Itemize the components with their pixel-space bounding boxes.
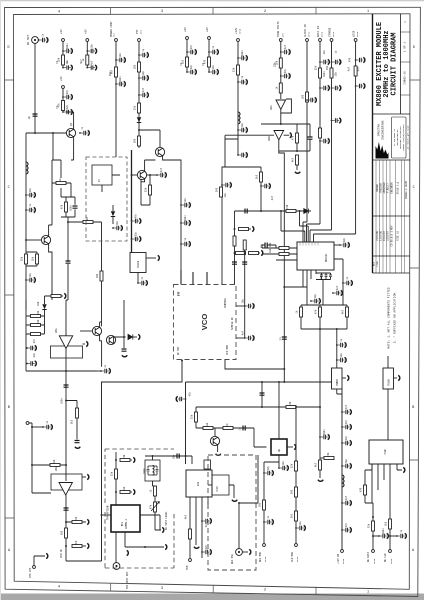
wire stub down mid: [52, 133, 54, 160]
ground G-R66: [64, 293, 66, 298]
capacitor C12 with ground: [138, 52, 148, 57]
wire R36 links: [26, 315, 45, 317]
node H2n: [261, 381, 263, 383]
wire R66 links: [45, 295, 64, 297]
svg-text:SCALE 1:1: SCALE 1:1: [397, 181, 400, 194]
node F5n: [234, 228, 236, 230]
capacitor C42 with ground: [180, 202, 190, 207]
wire lower rail: [196, 428, 267, 447]
ground G-R61: [252, 226, 254, 231]
capacitor C10 with ground: [115, 57, 125, 62]
svg-text:100n: 100n: [320, 274, 323, 280]
svg-text:PHONE +61(09)3702022: PHONE +61(09)3702022: [402, 124, 405, 151]
resistor R30: [279, 247, 289, 250]
wire VCO RF OUT down-left: [102, 360, 183, 562]
wire U2B output down long: [279, 140, 285, 382]
wire output rail: [26, 132, 66, 134]
svg-text:4p7: 4p7: [142, 87, 145, 92]
wire C24: [309, 124, 311, 151]
wire D5 links: [44, 296, 46, 334]
wire R40: [195, 407, 197, 428]
svg-text:RE CLK: RE CLK: [384, 553, 387, 562]
svg-text:4: 4: [58, 586, 60, 590]
capacitor C89 with ground: [260, 183, 270, 188]
node V3 terminal: [62, 86, 65, 89]
svg-text:47p: 47p: [205, 544, 208, 549]
svg-text:470: 470: [289, 401, 292, 406]
wire R46 link: [66, 521, 86, 523]
svg-text:2: 2: [264, 10, 266, 14]
wire REF OSC up: [239, 455, 258, 549]
wire J1 down: [34, 43, 36, 133]
svg-text:#P10: #P10: [264, 556, 267, 562]
svg-text:100n: 100n: [241, 50, 244, 56]
svg-text:4k7: 4k7: [185, 514, 188, 519]
op-amp U6A feedback box: [51, 346, 83, 358]
svg-text:47p: 47p: [190, 44, 193, 49]
node TRM terminal: [189, 559, 192, 562]
ground G-U12: [403, 467, 405, 472]
regulator U10: [383, 368, 394, 389]
svg-text:47p: 47p: [357, 66, 360, 71]
svg-text:RE DATA: RE DATA: [367, 551, 370, 562]
capacitor C20 with ground: [237, 79, 247, 84]
wire U4 left pin 1: [262, 247, 297, 249]
svg-text:#P20: #P20: [321, 31, 324, 37]
capacitor C83 with ground: [378, 533, 388, 538]
wire V1 down: [62, 42, 64, 68]
ground G-U3r: [158, 255, 160, 260]
resistor R13: [296, 133, 299, 143]
resistor R48: [72, 545, 82, 548]
resistor R63: [236, 252, 246, 255]
svg-text:4k7: 4k7: [111, 69, 114, 74]
svg-text:P.KELLY: P.KELLY: [387, 183, 390, 193]
capacitor C94 with ground: [331, 118, 341, 123]
svg-text:33k: 33k: [191, 414, 194, 419]
inductor L4: [342, 475, 344, 487]
capacitor C82 with ground: [295, 525, 305, 530]
svg-text:MB1501: MB1501: [325, 253, 328, 262]
wire top row rail: [301, 304, 347, 306]
resistor R44: [319, 460, 322, 470]
wire RF line: [145, 456, 192, 464]
wire PLL column lower: [319, 437, 321, 460]
wire VCO MOD column: [295, 407, 297, 543]
ground G-R65: [261, 250, 263, 255]
transistor Q1: [66, 128, 75, 137]
wire Q1 emitter down: [73, 137, 75, 150]
margin zone dividers top: [111, 7, 317, 14]
capacitor C22 with ground: [280, 49, 290, 54]
resistor R61: [239, 228, 249, 231]
svg-text:2. * SUFFIXED ON APPLICATION: 2. * SUFFIXED ON APPLICATION: [393, 293, 397, 344]
wire R65 link: [259, 252, 261, 254]
capacitor C59 inline: [64, 385, 69, 387]
wire row verticals: [301, 305, 347, 329]
resistor R21: [36, 254, 39, 264]
wire R43 stub: [320, 457, 324, 459]
resistor R52: [154, 486, 157, 496]
svg-text:ENGINEERING: ENGINEERING: [382, 120, 385, 139]
capacitor C54 with ground: [332, 290, 342, 295]
svg-text:33k: 33k: [233, 67, 236, 72]
capacitor C68 with ground: [336, 342, 346, 347]
wire VCO right pin 1: [236, 305, 245, 307]
regulator U3: [130, 253, 146, 273]
wire C56 stub: [25, 348, 27, 371]
node DATA IN terminal: [319, 39, 322, 42]
wire R48 link: [82, 545, 86, 547]
resistor R5: [138, 62, 141, 72]
capacitor C6 with ground: [86, 65, 96, 70]
wire U6B output down: [65, 495, 67, 561]
wire RV1 arrow: [151, 502, 160, 512]
node K3n: [389, 535, 391, 537]
capacitor C77 inline: [177, 454, 179, 459]
capacitor C33 with ground: [25, 207, 35, 212]
VCO dashed enclosure: [174, 285, 237, 360]
connector J1 RF OUT: [32, 37, 39, 44]
svg-text:U2B: U2B: [268, 136, 271, 141]
node I5n: [115, 459, 117, 461]
capacitor C36 inline: [66, 261, 71, 263]
wire C38 lead: [147, 174, 157, 176]
node I9n: [185, 455, 187, 457]
wire R53 down: [189, 539, 191, 558]
node K2n: [372, 535, 374, 537]
address box: [392, 117, 407, 158]
svg-text:#P24: #P24: [332, 31, 335, 37]
svg-text:10n: 10n: [184, 197, 187, 202]
wire CLOCK down: [303, 42, 307, 242]
node RTN terminal: [33, 566, 36, 569]
resistor R35: [31, 333, 41, 336]
svg-text:560: 560: [326, 65, 329, 70]
resistor R38: [76, 408, 79, 418]
svg-text:#P16: #P16: [239, 28, 242, 34]
svg-text:TRI TEST OUT: TRI TEST OUT: [126, 571, 129, 589]
capacitor C57 with ground: [100, 368, 110, 373]
svg-text:RX TEST LEVEL: RX TEST LEVEL: [165, 511, 168, 530]
wire U10 top: [387, 356, 389, 368]
svg-text:4p7: 4p7: [205, 522, 208, 527]
capacitor C64 inline: [260, 393, 265, 395]
capacitor C66 with ground: [278, 465, 288, 470]
ground G-U10: [398, 375, 400, 380]
wire X2 right pins: [229, 485, 234, 498]
svg-text:10n: 10n: [323, 49, 326, 54]
svg-text:100: 100: [96, 273, 99, 278]
resistor R34: [346, 307, 349, 317]
svg-text:RF OUT: RF OUT: [177, 346, 180, 355]
svg-text:33k: 33k: [269, 242, 272, 247]
capacitor C31 with ground: [355, 83, 365, 88]
capacitor C44 with ground: [180, 241, 190, 246]
node J1n: [238, 502, 240, 504]
svg-text:47p: 47p: [261, 243, 264, 248]
wire supply rail left: [222, 135, 225, 284]
wire gnd stub: [284, 134, 290, 136]
wire R45 links: [32, 464, 66, 466]
node D2n: [67, 221, 69, 223]
ground G-RTN: [46, 553, 48, 558]
resistor R41: [203, 427, 213, 430]
svg-text:74HC: 74HC: [384, 449, 387, 455]
svg-text:10p: 10p: [335, 71, 338, 76]
svg-text:100n: 100n: [323, 71, 326, 77]
svg-text:U11: U11: [197, 481, 200, 486]
capacitor C65 inline: [243, 426, 245, 431]
capacitor C69 with ground: [336, 357, 346, 362]
resistor R46: [72, 521, 82, 524]
svg-text:4k7: 4k7: [342, 309, 345, 314]
capacitor C87 with ground: [341, 527, 351, 532]
wire input left: [29, 423, 51, 493]
wire supply rail G: [26, 370, 97, 372]
wire U8 top pin: [278, 382, 280, 439]
resistor R10: [237, 65, 240, 75]
dashed option box OSC1: [86, 157, 127, 241]
wire U2A feedback loop: [281, 99, 292, 113]
capacitor C4 with ground: [62, 65, 72, 70]
wire C36 down: [66, 264, 68, 336]
wire U4 right pin 1: [334, 244, 340, 246]
wire V2 down: [86, 42, 88, 68]
node F2n: [283, 286, 285, 288]
wire stub to C73: [32, 426, 43, 428]
svg-text:VCO: VCO: [200, 314, 209, 331]
svg-text:10p: 10p: [173, 454, 176, 459]
svg-text:4p7: 4p7: [336, 285, 339, 290]
svg-text:22p: 22p: [135, 231, 138, 236]
resistor R57: [295, 511, 298, 521]
svg-text:560: 560: [37, 319, 40, 324]
wire R37 links: [26, 324, 45, 326]
svg-text:560: 560: [216, 187, 219, 192]
margin zone dividers bottom: [111, 583, 316, 595]
capacitor C48 with ground: [339, 242, 349, 247]
svg-text:100: 100: [134, 64, 137, 69]
wire U3 right pin: [146, 257, 156, 259]
svg-text:#P2: #P2: [113, 32, 116, 37]
wire top link: [52, 160, 61, 178]
resistor R22: [56, 182, 66, 185]
op-amp U6B: [59, 483, 72, 496]
svg-text:47k: 47k: [150, 504, 153, 509]
wire U2B input rail top: [261, 123, 310, 125]
svg-text:4k7: 4k7: [315, 462, 318, 467]
svg-text:4p7: 4p7: [90, 60, 93, 65]
trimmer RV1: [154, 502, 157, 512]
resistor R8: [186, 57, 189, 67]
inductor L3 tank: [153, 466, 155, 476]
margin zone dividers right: [409, 80, 420, 460]
capacitor C61 with ground: [244, 303, 254, 308]
wire VCO top stub 4: [234, 283, 236, 284]
wire +12V feed edge: [341, 389, 343, 549]
svg-text:10p: 10p: [314, 293, 317, 298]
capacitor C47: [265, 243, 267, 248]
svg-text:470: 470: [349, 57, 352, 62]
wire V3 down: [62, 89, 64, 112]
svg-text:100: 100: [302, 94, 305, 99]
svg-text:560: 560: [134, 138, 137, 143]
node F1n: [260, 210, 262, 212]
wire D2: [112, 205, 114, 224]
svg-text:22p: 22p: [267, 465, 270, 470]
svg-text:470: 470: [204, 59, 207, 64]
svg-text:U6A: U6A: [55, 328, 58, 333]
transistor Q7: [210, 436, 219, 445]
capacitor C37 with ground: [112, 225, 122, 230]
wire U11 bottom pins: [190, 497, 208, 558]
wire U2B minus input: [225, 134, 274, 136]
svg-text:33k: 33k: [111, 471, 114, 476]
ground G-Q7: [216, 454, 221, 456]
resistor R25: [100, 271, 103, 281]
wire VCO right pin 2: [236, 337, 245, 339]
wire U9 top feed: [336, 329, 338, 368]
svg-text:D: D: [8, 46, 10, 50]
wire D3 to gnd: [133, 336, 137, 338]
svg-text:10n: 10n: [299, 520, 302, 525]
svg-text:22k: 22k: [134, 105, 137, 110]
svg-text:100n: 100n: [382, 528, 385, 534]
resistor R6: [138, 103, 141, 113]
capacitor C85 with ground: [341, 463, 351, 468]
node A2: [52, 132, 54, 134]
svg-text:10k: 10k: [32, 256, 35, 261]
resistor R60: [389, 519, 392, 529]
wire Q5 base: [80, 330, 92, 332]
wire PTT down: [138, 42, 140, 148]
capacitor C23 with ground: [280, 73, 290, 78]
op-amp U2A: [276, 100, 286, 109]
node I0n: [31, 426, 33, 428]
svg-text:SPECTRA: SPECTRA: [378, 124, 381, 136]
resistor R1: [62, 55, 65, 65]
capacitor C52 xtal: [329, 275, 332, 277]
node H5n: [278, 381, 280, 383]
capacitor C90 inline: [232, 262, 237, 264]
capacitor C29 with ground: [331, 85, 341, 90]
ground G-U8: [294, 444, 296, 449]
svg-text:47k: 47k: [327, 452, 330, 457]
ground G-U5: [165, 544, 167, 549]
svg-text:MCL: MCL: [121, 521, 124, 526]
capacitor C26 with ground: [319, 59, 329, 64]
wire U4 left pin 3: [276, 259, 297, 261]
svg-text:47k: 47k: [61, 204, 64, 209]
capacitor C35 tank: [73, 206, 78, 208]
node I1n: [31, 464, 33, 466]
wire R38 down: [76, 418, 78, 440]
wire R13 top: [296, 124, 298, 133]
node V5 terminal: [208, 37, 211, 40]
node VCO MOD terminal: [295, 544, 298, 547]
diode D3 varactor: [128, 334, 133, 339]
wire C84 link: [390, 535, 397, 537]
ground G-U2B: [290, 133, 292, 138]
wire Q5 collector: [100, 322, 102, 327]
buffer U11: [186, 470, 212, 497]
svg-text:#P22: #P22: [308, 31, 311, 37]
ground G-R14: [295, 172, 300, 174]
ground G-U6A: [86, 341, 88, 346]
wire tank internal rails: [148, 466, 157, 475]
node G6 terminal: [26, 422, 29, 425]
capacitor C13 with ground: [138, 75, 148, 80]
wire rail to cap: [97, 370, 101, 372]
wire RV1 down: [155, 512, 161, 530]
wire R22 down: [52, 183, 71, 197]
node REF MOD terminal: [263, 544, 266, 547]
wire R44 down: [319, 470, 321, 478]
node C2n: [296, 150, 298, 152]
wire U5 left pin: [102, 514, 112, 516]
svg-text:B: B: [8, 406, 10, 410]
transistor Q5: [92, 326, 101, 335]
wire main bold rail: [131, 150, 133, 253]
wire sample column: [244, 240, 246, 338]
wire R24 link: [68, 222, 102, 271]
wire Q3 emitter: [49, 244, 52, 300]
wire Q4 emitter down: [141, 179, 145, 182]
ground G-R46: [87, 519, 89, 524]
capacitor C32 with ground: [25, 192, 35, 197]
svg-text:#P18: #P18: [373, 558, 376, 564]
ground G-REF: [249, 549, 251, 554]
resistor R55: [295, 461, 298, 471]
node B1: [138, 129, 140, 131]
node TEST OUT connector: [113, 563, 120, 570]
resistor R7: [138, 136, 141, 146]
wire U5 bottom pin2: [115, 532, 117, 563]
wire branch to Q2: [139, 130, 160, 147]
svg-text:10n: 10n: [29, 272, 32, 277]
capacitor C1: [38, 37, 48, 42]
wire RTN up: [34, 556, 45, 565]
wire U6A gnd stub: [83, 343, 86, 345]
resistor R29: [286, 210, 296, 213]
resistor R2: [86, 55, 89, 65]
svg-text:10p: 10p: [142, 70, 145, 75]
ground G-D3: [138, 334, 140, 339]
resistor R64: [243, 240, 246, 250]
wire U5 right pin: [140, 515, 160, 530]
wire loop filter rail: [235, 211, 312, 242]
wire Q1 collector up: [66, 112, 74, 129]
resistor R9: [208, 57, 211, 67]
wire branch right: [66, 401, 77, 409]
capacitor C19 with ground: [237, 55, 247, 60]
resistor R47: [65, 528, 68, 538]
wire U12 bottom pins: [372, 464, 402, 536]
node F6n: [234, 252, 236, 254]
dashed REF OSC enclosure: [208, 455, 256, 570]
capacitor C80 with ground: [263, 470, 273, 475]
svg-text:4: 4: [58, 10, 60, 14]
wire Q4 base: [132, 174, 138, 176]
wire DATA column: [372, 517, 374, 549]
resistor R17: [330, 68, 333, 78]
svg-text:2k2: 2k2: [256, 174, 259, 179]
capacitor C51 xtal: [325, 275, 328, 277]
node F3n: [319, 328, 321, 330]
svg-text:RF OUT: RF OUT: [27, 35, 30, 45]
node I6n: [115, 491, 117, 493]
